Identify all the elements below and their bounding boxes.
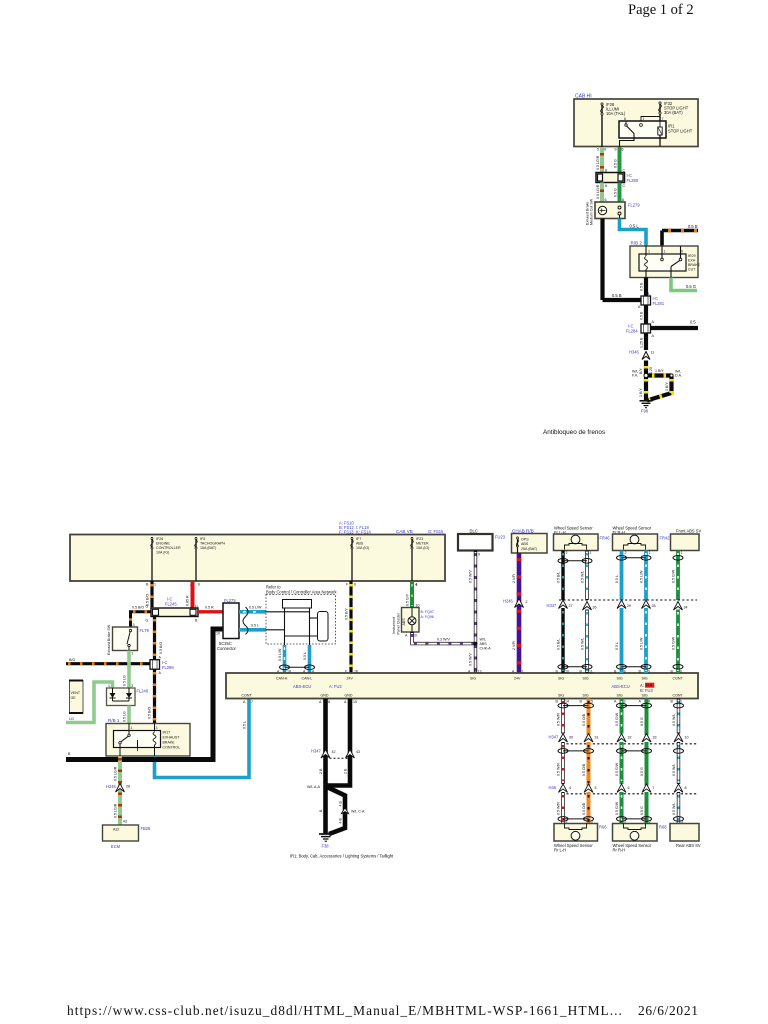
svg-text:C: C (623, 184, 626, 188)
svg-text:BRAKE: BRAKE (688, 263, 701, 267)
wire 0.5 B to FL284 (644, 305, 648, 324)
svg-text:0.5 L: 0.5 L (303, 652, 307, 660)
svg-text:H346: H346 (629, 350, 640, 355)
svg-text:A: A (159, 656, 162, 660)
svg-text:FB26: FB26 (141, 826, 152, 831)
wire 0.5 W/V from DLC down (474, 551, 477, 674)
svg-text:GND: GND (345, 693, 353, 697)
ground F38 (319, 833, 333, 835)
svg-text:0.5 G/W: 0.5 G/W (672, 636, 676, 650)
svg-text:G: G (146, 605, 149, 609)
ECM box (103, 825, 139, 841)
wire 0.5 B/O from IF26 (150, 581, 153, 608)
svg-text:CUT: CUT (688, 268, 696, 272)
svg-text:A: A (319, 700, 322, 704)
svg-text:0.5 G: 0.5 G (640, 767, 644, 776)
wire B/O elbow to exhaust brake SW (131, 612, 152, 627)
svg-text:FL246: FL246 (137, 689, 149, 694)
Wheel Speed Sensor Rr R-H box (613, 824, 658, 842)
cyan wire R/B1 coil to ABS ECU CONT (155, 699, 250, 778)
svg-text:0.5 O/B: 0.5 O/B (582, 713, 586, 726)
svg-text:0.5 LG/R: 0.5 LG/R (596, 155, 600, 170)
svg-text:0.5 W/L: 0.5 W/L (581, 571, 585, 583)
svg-text:1: 1 (664, 250, 666, 254)
svg-text:FL79: FL79 (140, 628, 150, 633)
svg-text:H: H (195, 605, 198, 609)
wire 0.5 G/W seg2 (620, 742, 624, 784)
wire 0.5 B/O horizontal top right (662, 229, 698, 233)
exhaust brake SW box (113, 627, 138, 651)
wire 0.5 W/R seg1 (561, 699, 564, 734)
svg-text:0.5: 0.5 (690, 320, 696, 325)
svg-text:5: 5 (595, 786, 597, 790)
svg-text:FL284: FL284 (626, 329, 638, 334)
dashed harness line (559, 599, 697, 601)
svg-text:FL281: FL281 (653, 301, 665, 306)
svg-text:3: 3 (624, 700, 626, 704)
svg-text:CONTROLLER: CONTROLLER (156, 546, 181, 550)
svg-text:SIG: SIG (642, 677, 648, 681)
svg-text:IR17: IR17 (163, 731, 171, 735)
svg-text:9: 9 (615, 148, 617, 152)
svg-text:R68: R68 (659, 825, 667, 830)
svg-text:10A (IG): 10A (IG) (356, 546, 369, 550)
wire 0.5 O/B seg3 (587, 792, 591, 824)
svg-text:Panel Cluster: Panel Cluster (397, 612, 401, 634)
svg-text:B/Y: B/Y (639, 368, 643, 374)
svg-text:24V: 24V (347, 677, 354, 681)
svg-text:7: 7 (251, 700, 253, 704)
svg-text:2 B: 2 B (319, 768, 323, 774)
svg-text:30A (BAT): 30A (BAT) (664, 110, 683, 115)
wire 0.5 G seg3 (645, 792, 649, 824)
svg-text:0.5 LG/R: 0.5 LG/R (114, 803, 118, 818)
fuse IF5 (195, 537, 197, 581)
svg-text:GND: GND (321, 693, 329, 697)
svg-text:2: 2 (566, 551, 568, 555)
svg-text:G: G (146, 619, 149, 623)
svg-text:0.5 G: 0.5 G (640, 806, 644, 815)
svg-text:FL245: FL245 (165, 602, 177, 607)
svg-text:FR46: FR46 (600, 536, 611, 541)
svg-text:31: 31 (595, 736, 599, 740)
GND wire right thick (327, 699, 350, 786)
svg-text:EXH: EXH (688, 259, 696, 263)
svg-text:CONT: CONT (673, 693, 684, 697)
svg-text:F.A.: F.A. (632, 374, 638, 378)
svg-text:B: B (195, 619, 198, 623)
wire 0.5 LG/R from R/B1 switch to ECM (118, 756, 122, 825)
svg-text:W/L: W/L (480, 638, 486, 642)
wire 0.5 W/R seg2 (561, 742, 564, 784)
svg-text:H347: H347 (311, 749, 322, 754)
wire 0.5 W/L seg3 (677, 792, 680, 824)
svg-text:H46: H46 (549, 785, 557, 790)
svg-text:G: FS16: G: FS16 (428, 529, 444, 534)
svg-text:IF23: IF23 (416, 537, 423, 541)
wire 0.5 G/W seg1 (620, 699, 624, 734)
wire 0.85 R from IF5 (191, 581, 195, 608)
svg-text:0.3 W/V: 0.3 W/V (437, 638, 450, 642)
svg-text:0.5 L/W: 0.5 L/W (640, 637, 644, 650)
svg-text:0.5 B/Y: 0.5 B/Y (345, 608, 349, 620)
svg-text:43: 43 (356, 750, 360, 754)
svg-text:0.5 B/O: 0.5 B/O (132, 606, 144, 610)
svg-text:F98: F98 (641, 409, 649, 414)
svg-text:A: A (243, 700, 246, 704)
svg-text:H246: H246 (106, 784, 117, 789)
svg-text:2 B: 2 B (344, 768, 348, 774)
svg-text:3: 3 (133, 623, 135, 627)
wire 0.5 G/W seg3 (620, 792, 624, 824)
svg-text:8: 8 (605, 184, 607, 188)
svg-text:Medium Cut SW: Medium Cut SW (590, 198, 594, 225)
svg-text:4: 4 (416, 583, 418, 587)
svg-text:IR29: IR29 (688, 254, 696, 258)
svg-text:0.5 L: 0.5 L (251, 624, 259, 628)
svg-text:A: FU2: A: FU2 (329, 684, 342, 689)
svg-text:METER: METER (416, 542, 429, 546)
svg-text:TACHOGRAPH: TACHOGRAPH (200, 542, 225, 546)
wire 0.5 LG below diode box (127, 706, 131, 724)
svg-text:Instrument: Instrument (392, 617, 396, 634)
relay coil IR29 (645, 246, 647, 256)
svg-text:0.5 L/W: 0.5 L/W (640, 570, 644, 583)
svg-text:D.A.: D.A. (675, 374, 682, 378)
svg-text:IF7: IF7 (356, 537, 361, 541)
relay contacts (661, 246, 663, 258)
wire 0.5 O/B seg2 (587, 742, 591, 786)
BCM box inside (283, 600, 312, 609)
svg-text:1 B/Y: 1 B/Y (639, 388, 643, 397)
svg-text:4 B: 4 B (339, 818, 343, 824)
svg-text:0.5 G: 0.5 G (640, 717, 644, 726)
connector ovals Fr R-H (622, 557, 647, 559)
svg-text:7: 7 (653, 786, 655, 790)
svg-text:SIG: SIG (617, 677, 623, 681)
svg-text:6: 6 (198, 583, 200, 587)
svg-text:OPS: OPS (521, 538, 529, 542)
svg-text:C: C (623, 169, 626, 173)
svg-text:B: FQ97: B: FQ97 (421, 610, 434, 614)
svg-text:Body Control / Controller Area: Body Control / Controller Area Network (266, 589, 337, 594)
svg-text:F38: F38 (322, 844, 330, 849)
svg-text:0.5 LG: 0.5 LG (123, 711, 127, 722)
svg-text:IR1: Body, Cab, Accessories /: IR1: Body, Cab, Accessories / Lighting S… (290, 854, 394, 859)
connector ovals above band (563, 666, 587, 668)
svg-text:Connector: Connector (217, 646, 237, 651)
svg-text:9: 9 (648, 670, 650, 674)
wire 0.5 LG/R vertical 2 (600, 183, 604, 203)
svg-text:CHK-A: CHK-A (480, 647, 492, 651)
svg-text:0.5 L: 0.5 L (630, 224, 640, 229)
svg-text:Rr L-H: Rr L-H (554, 847, 566, 852)
svg-text:3: 3 (131, 684, 133, 688)
svg-text:26/6/2021: 26/6/2021 (638, 1003, 699, 1018)
wire 0.3 W/V lamp to junction (412, 632, 476, 644)
wire 0.5 B/O below FL245 (153, 617, 156, 661)
svg-text:29: 29 (627, 604, 631, 608)
svg-text:0.5 LG/R: 0.5 LG/R (114, 766, 118, 781)
svg-text:A: A (344, 700, 347, 704)
svg-text:1: 1 (154, 583, 156, 587)
connector I-C FL298 (150, 660, 160, 670)
connector ovals on CAN pair (285, 666, 310, 668)
svg-text:5: 5 (597, 148, 599, 152)
svg-text:SIG: SIG (583, 677, 589, 681)
wire 0.5 L from FL279 (239, 628, 266, 632)
svg-text:ABS-ECU: ABS-ECU (612, 684, 630, 689)
svg-text:0.5 B/O: 0.5 B/O (148, 707, 152, 719)
svg-text:10: 10 (565, 670, 569, 674)
svg-text:B/O: B/O (69, 658, 75, 662)
svg-text:43: 43 (123, 820, 127, 824)
svg-text:0.5 L/W: 0.5 L/W (278, 648, 282, 661)
CAB VB fuse box band (70, 535, 445, 582)
wire 0.5 W/L seg1 (677, 699, 680, 734)
svg-text:0.5 B/L: 0.5 B/L (557, 572, 561, 583)
connector I-C FL284 (641, 324, 651, 333)
svg-text:VENT: VENT (71, 691, 81, 695)
svg-text:A: FQ96: A: FQ96 (421, 615, 434, 619)
svg-text:15A (BAT): 15A (BAT) (200, 546, 216, 550)
svg-text:0.5 W/L: 0.5 W/L (581, 638, 585, 650)
wire 1 B/Y branch right (646, 373, 672, 377)
wire 0.5 B horizontal from switch to FL281 (603, 298, 642, 302)
wire 0.5 L/W Fr R-H upper (644, 551, 648, 601)
svg-text:R/B 2: R/B 2 (631, 241, 643, 246)
svg-text:FL298: FL298 (162, 665, 174, 670)
svg-text:2 V/R: 2 V/R (512, 574, 516, 583)
svg-text:EXHAUST: EXHAUST (163, 736, 181, 740)
svg-text:3: 3 (156, 726, 158, 730)
svg-text:ECM: ECM (111, 844, 121, 849)
wire 0.5 G seg2 (645, 742, 649, 786)
svg-text:1 B/Y: 1 B/Y (665, 382, 669, 391)
svg-text:0.5 O/B: 0.5 O/B (582, 802, 586, 815)
VENT GE box at left edge (70, 681, 84, 714)
svg-text:6: 6 (628, 786, 630, 790)
ground F98 (640, 400, 653, 402)
GND wire left thick (323, 699, 328, 786)
svg-text:SIG: SIG (642, 693, 648, 697)
svg-text:8: 8 (605, 169, 607, 173)
svg-text:1: 1 (590, 551, 592, 555)
svg-text:1.25: 1.25 (649, 367, 653, 374)
connector ovals row 3 (563, 818, 589, 820)
wire 0.5 G vertical (618, 147, 622, 173)
wire 0.5 L cyan elbow (620, 219, 647, 247)
svg-text:R66: R66 (599, 825, 607, 830)
svg-text:6: 6 (354, 583, 356, 587)
svg-text:24V: 24V (514, 677, 521, 681)
svg-text:4: 4 (569, 786, 571, 790)
svg-text:33: 33 (653, 736, 657, 740)
svg-text:28: 28 (126, 785, 130, 789)
wire 0.5 B thick from switch (600, 219, 604, 301)
svg-text:0.5 LG: 0.5 LG (123, 675, 127, 686)
svg-text:CAN-L: CAN-L (302, 677, 313, 681)
svg-text:2: 2 (526, 600, 528, 604)
wire 0.5 B/L Fr L-H upper (561, 551, 564, 601)
dashed harness line rear 2 (562, 793, 697, 795)
svg-text:CONT: CONT (673, 677, 684, 681)
svg-text:0.5 W/V: 0.5 W/V (469, 570, 473, 583)
connector I-C FL280 (596, 173, 625, 183)
svg-text:0.5 W/R: 0.5 W/R (557, 763, 561, 776)
wire 1 B/Y left leg down (644, 376, 648, 401)
wire 0.5 L/W lower (644, 608, 648, 673)
wire B/Y down to junction (644, 361, 648, 376)
svg-text:Page 1 of 2: Page 1 of 2 (628, 2, 694, 18)
svg-text:6: 6 (681, 250, 683, 254)
svg-text:IF5: IF5 (200, 537, 205, 541)
svg-text:10A (TAIL): 10A (TAIL) (606, 111, 626, 116)
fuse IF28 (601, 103, 603, 147)
relay IR17 internals (128, 724, 130, 735)
svg-text:0.5 G/W: 0.5 G/W (615, 712, 619, 726)
svg-text:CAN-H: CAN-H (276, 677, 288, 681)
svg-text:8: 8 (685, 786, 687, 790)
wire 1 B/Y right leg down (647, 376, 672, 401)
svg-text:8: 8 (328, 700, 330, 704)
svg-text:0.5 W/R: 0.5 W/R (557, 802, 561, 815)
junction node W/L ABS CHK-A (474, 642, 478, 646)
svg-text:1: 1 (643, 117, 645, 121)
svg-text:W/L C-A: W/L C-A (351, 810, 365, 814)
connector ovals Fr L-H (563, 560, 587, 562)
connector ovals row 2 (563, 750, 589, 752)
wire 0.5 W/L lower (585, 610, 588, 674)
wire 0.5 G seg1 (645, 699, 649, 736)
svg-text:4 B: 4 B (339, 801, 343, 807)
svg-text:7: 7 (662, 117, 664, 121)
svg-text:B: B (68, 752, 71, 756)
svg-text:0.5 L: 0.5 L (615, 575, 619, 583)
red highlight box (645, 683, 654, 688)
svg-text:F: F (346, 583, 349, 587)
svg-text:ABS: ABS (480, 642, 488, 646)
junction node dots (644, 374, 648, 378)
svg-text:0.5 O/B: 0.5 O/B (582, 763, 586, 776)
svg-text:SIG: SIG (583, 693, 589, 697)
svg-text:34: 34 (684, 606, 688, 610)
svg-text:Front ABS SV: Front ABS SV (676, 529, 702, 534)
svg-text:0.5 L: 0.5 L (615, 642, 619, 650)
wire 0.5 LG from SW to diode box (127, 651, 131, 689)
diode box FL246 (107, 688, 136, 706)
svg-text:FL279: FL279 (628, 203, 640, 208)
svg-text:ABS: ABS (402, 618, 406, 626)
svg-text:0.5 L: 0.5 L (243, 721, 247, 729)
ground leg right loop W/L C-A (327, 787, 345, 834)
instrument panel cluster ABS lamp (402, 608, 420, 633)
svg-text:10A (IG): 10A (IG) (156, 551, 169, 555)
wire 2 V/R purple (517, 553, 522, 673)
svg-text:B: B (319, 809, 323, 812)
svg-text:CONTROL: CONTROL (163, 746, 181, 750)
svg-text:B: FU3: B: FU3 (640, 688, 653, 693)
CAN-H cyan down (283, 645, 287, 673)
svg-text:FR42: FR42 (660, 536, 671, 541)
svg-text:W/L A-A: W/L A-A (307, 785, 321, 789)
svg-text:1.25 B: 1.25 B (640, 337, 644, 348)
svg-text:STOP LIGHT: STOP LIGHT (668, 129, 693, 134)
svg-text:SIG: SIG (558, 693, 564, 697)
svg-text:0.5 LG/R: 0.5 LG/R (596, 184, 600, 199)
svg-text:SIG: SIG (558, 677, 564, 681)
CAN node box inside (318, 612, 329, 642)
svg-text:0.85 R: 0.85 R (186, 595, 190, 606)
wire 0.5 G/W Front ABS upper (676, 551, 680, 601)
svg-text:ABS: ABS (521, 542, 529, 546)
svg-text:Rear ABS SV: Rear ABS SV (676, 843, 701, 848)
fuse IF32 (659, 102, 661, 121)
wire 1.25 B (644, 333, 648, 350)
svg-text:H246: H246 (503, 599, 514, 604)
svg-text:FL280: FL280 (627, 178, 639, 183)
svg-text:30: 30 (569, 736, 573, 740)
svg-text:0.5 R: 0.5 R (205, 606, 214, 610)
Rear ABS box (670, 824, 699, 842)
svg-text:11: 11 (651, 351, 655, 355)
svg-text:1: 1 (132, 652, 134, 656)
svg-text:A: A (639, 700, 642, 704)
fuse IF7 (351, 537, 353, 581)
wire 0.5 L Fr R-H upper (620, 551, 624, 601)
svg-text:2: 2 (625, 551, 627, 555)
switch FL279 Exhaust Brake Medium Cut SW (595, 202, 625, 219)
Wheel Speed Sensor Rr L-H box (554, 824, 598, 842)
wire 0.5 L lower (620, 608, 624, 673)
svg-text:26: 26 (593, 606, 597, 610)
svg-text:0.5 W/R: 0.5 W/R (557, 713, 561, 726)
svg-text:6: 6 (624, 117, 626, 121)
svg-text:ENGINE: ENGINE (156, 542, 170, 546)
svg-text:B: B (556, 700, 559, 704)
svg-text:1: 1 (108, 684, 110, 688)
svg-text:0.5 B: 0.5 B (612, 293, 622, 298)
fuse OPS ABS (517, 537, 519, 554)
svg-text:GE: GE (71, 696, 77, 700)
svg-text:15A (IG): 15A (IG) (416, 546, 429, 550)
svg-text:27: 27 (569, 604, 573, 608)
svg-text:0.5 G/W: 0.5 G/W (615, 801, 619, 815)
svg-text:A: A (405, 634, 408, 638)
svg-text:9: 9 (604, 148, 606, 152)
relay IR1 STOP LIGHT (619, 121, 666, 138)
svg-text:0.5 W/L: 0.5 W/L (672, 803, 676, 815)
svg-text:1 B/Y: 1 B/Y (655, 369, 664, 373)
svg-text:H347: H347 (547, 603, 558, 608)
svg-text:0.5 W/L: 0.5 W/L (672, 714, 676, 726)
svg-text:Rr R-H: Rr R-H (613, 847, 626, 852)
svg-text:A32: A32 (113, 828, 119, 832)
wire 0.5 B/O below FL298 (153, 669, 156, 723)
wire 0.5 B below R/B 2 (644, 278, 648, 297)
svg-text:8: 8 (624, 670, 626, 674)
network wires (266, 611, 310, 613)
svg-text:0.5 B/L: 0.5 B/L (557, 639, 561, 650)
svg-text:32: 32 (628, 736, 632, 740)
svg-text:ABS: ABS (356, 542, 364, 546)
svg-text:1: 1 (648, 250, 650, 254)
wire LG elbow from left edge (66, 682, 113, 723)
svg-text:CONT: CONT (242, 693, 253, 697)
dashed harness line rear 1 (562, 743, 697, 745)
svg-text:0.5 G/W: 0.5 G/W (672, 569, 676, 583)
svg-text:H347: H347 (549, 735, 560, 740)
